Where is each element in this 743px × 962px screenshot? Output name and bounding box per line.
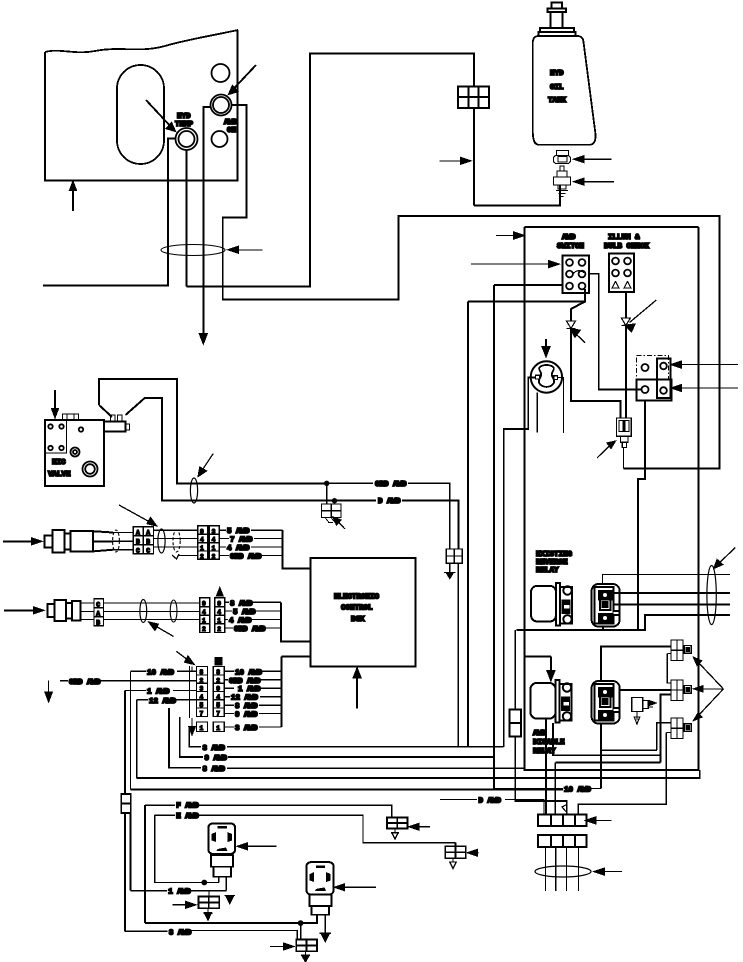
svg-text:RELAY: RELAY (536, 567, 559, 575)
svg-text:A: A (146, 529, 150, 536)
svg-text:3: 3 (212, 528, 216, 535)
svg-text:EXISTING: EXISTING (536, 551, 573, 559)
svg-text:ON: ON (227, 127, 236, 135)
svg-text:AWD: AWD (533, 730, 547, 738)
svg-text:HYD: HYD (177, 113, 191, 121)
svg-text:4: 4 (202, 609, 206, 616)
svg-text:F AWD: F AWD (176, 803, 199, 811)
svg-text:2: 2 (200, 554, 204, 561)
svg-text:12 AWD: 12 AWD (149, 698, 177, 706)
svg-text:REVERSE: REVERSE (536, 559, 568, 567)
svg-text:8 AWD: 8 AWD (230, 600, 253, 608)
svg-text:AWD: AWD (224, 119, 238, 127)
svg-text:1: 1 (217, 618, 221, 625)
svg-text:TANK: TANK (548, 97, 567, 105)
svg-text:HIC: HIC (52, 459, 66, 467)
svg-text:ELECTRONIC: ELECTRONIC (334, 594, 380, 602)
svg-text:1 AWD: 1 AWD (147, 688, 170, 696)
svg-text:9: 9 (202, 601, 206, 608)
svg-text:10 AWD: 10 AWD (147, 669, 175, 677)
svg-text:12 AWD: 12 AWD (231, 695, 259, 703)
svg-text:9: 9 (216, 686, 220, 693)
svg-text:GRD AWD: GRD AWD (230, 554, 262, 562)
svg-text:B: B (146, 538, 150, 545)
svg-text:1: 1 (202, 618, 206, 625)
svg-text:HYD: HYD (550, 70, 564, 78)
svg-text:7: 7 (200, 710, 204, 717)
svg-text:5 AWD: 5 AWD (227, 528, 250, 536)
svg-text:9: 9 (217, 601, 221, 608)
svg-text:3: 3 (200, 686, 204, 693)
svg-text:E AWD: E AWD (176, 813, 199, 821)
svg-text:D AWD: D AWD (378, 498, 401, 506)
svg-text:4: 4 (216, 694, 220, 701)
svg-text:8: 8 (200, 669, 204, 676)
svg-text:GRD AWD: GRD AWD (69, 679, 101, 687)
svg-text:GRD AWD: GRD AWD (375, 481, 407, 489)
svg-text:4 AWD: 4 AWD (227, 545, 250, 553)
svg-text:9 AWD: 9 AWD (205, 755, 228, 763)
svg-text:3 AWD: 3 AWD (169, 930, 192, 938)
svg-text:GRD AWD: GRD AWD (234, 626, 266, 634)
svg-text:A: A (96, 610, 100, 617)
svg-text:A: A (136, 529, 140, 536)
svg-text:3 AWD: 3 AWD (203, 745, 226, 753)
svg-text:VALVE: VALVE (48, 471, 71, 479)
svg-text:4: 4 (212, 537, 216, 544)
svg-text:10 AWD: 10 AWD (564, 787, 592, 795)
svg-text:BULB CHECK: BULB CHECK (604, 243, 650, 251)
svg-text:2: 2 (217, 626, 221, 633)
svg-text:1: 1 (200, 725, 204, 732)
svg-text:2: 2 (212, 554, 216, 561)
svg-text:2: 2 (200, 677, 204, 684)
svg-text:B: B (136, 538, 140, 545)
svg-text:1: 1 (200, 545, 204, 552)
svg-text:9: 9 (200, 528, 204, 535)
svg-text:D AWD: D AWD (479, 797, 502, 805)
svg-text:4: 4 (217, 609, 221, 616)
svg-text:3 AWD: 3 AWD (235, 725, 258, 733)
svg-text:TEMP: TEMP (175, 121, 194, 129)
svg-text:ILLUM &: ILLUM & (608, 234, 640, 242)
svg-text:C: C (96, 601, 100, 608)
svg-text:10 AWD: 10 AWD (235, 669, 263, 677)
svg-text:DISABLE: DISABLE (533, 739, 565, 747)
svg-text:2: 2 (216, 677, 220, 684)
svg-text:4 AWD: 4 AWD (229, 618, 252, 626)
svg-text:9 AWD: 9 AWD (235, 712, 258, 720)
svg-text:1 AWD: 1 AWD (168, 889, 191, 897)
svg-text:8 AWD: 8 AWD (235, 703, 258, 711)
svg-text:1: 1 (216, 725, 220, 732)
svg-text:4: 4 (200, 694, 204, 701)
svg-text:7: 7 (216, 710, 220, 717)
svg-text:GRD AWD: GRD AWD (229, 678, 261, 686)
svg-text:SWITCH: SWITCH (557, 243, 584, 251)
svg-text:5 AWD: 5 AWD (233, 609, 256, 617)
svg-text:2: 2 (202, 626, 206, 633)
svg-text:4: 4 (200, 537, 204, 544)
svg-text:1: 1 (212, 545, 216, 552)
svg-text:C: C (136, 547, 140, 554)
svg-text:B: B (96, 619, 100, 626)
svg-text:CONTROL: CONTROL (341, 605, 373, 613)
svg-text:BOX: BOX (351, 616, 365, 624)
svg-text:5: 5 (216, 702, 220, 709)
svg-text:1 AWD: 1 AWD (238, 686, 261, 694)
svg-text:5: 5 (200, 702, 204, 709)
svg-text:AWD: AWD (562, 234, 576, 242)
svg-text:8 AWD: 8 AWD (203, 766, 226, 774)
svg-text:7 AWD: 7 AWD (230, 537, 253, 545)
svg-text:8: 8 (216, 669, 220, 676)
svg-text:C: C (146, 547, 150, 554)
svg-text:OIL: OIL (550, 84, 564, 92)
